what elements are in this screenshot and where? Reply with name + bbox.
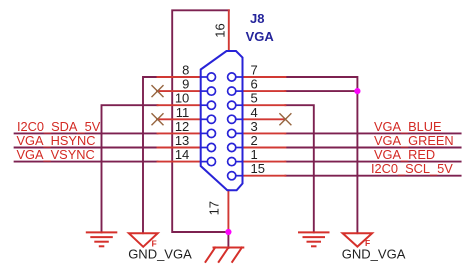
svg-text:VGA_RED: VGA_RED [374, 147, 435, 162]
ground GND_VGA triangle left [129, 233, 158, 247]
pin circles left column [207, 73, 215, 166]
wire VGA_GREEN net [285, 147, 460, 149]
svg-text:7: 7 [251, 63, 258, 78]
svg-text:VGA_VSYNC: VGA_VSYNC [17, 147, 95, 162]
connector J8 body [201, 51, 243, 190]
pin 16 lead [228, 10, 230, 51]
pin 5 lead [243, 104, 286, 106]
svg-text:14: 14 [175, 147, 189, 162]
svg-text:10: 10 [175, 91, 189, 106]
svg-text:8: 8 [182, 63, 189, 78]
ground GND right (earth bars) [299, 232, 329, 246]
wire I2C0_SDA_5V net [15, 132, 158, 134]
ground GND left (earth bars) [87, 232, 117, 246]
wire VGA_VSYNC net [15, 161, 158, 163]
svg-text:I2C0_SCL_5V: I2C0_SCL_5V [371, 161, 453, 176]
junction dot right [354, 88, 360, 94]
svg-text:11: 11 [176, 105, 190, 120]
no-connect X pin 9 [152, 86, 163, 97]
svg-text:GND_VGA: GND_VGA [342, 247, 406, 262]
svg-text:13: 13 [175, 133, 189, 148]
svg-text:J8: J8 [250, 11, 264, 26]
pin 8 lead [158, 76, 201, 78]
svg-text:4: 4 [251, 105, 258, 120]
pin 14 lead [158, 161, 201, 163]
pin 12 lead [158, 132, 201, 134]
wire pin8 to GND_VGA left [143, 77, 158, 233]
ground GND_VGA triangle right [343, 233, 373, 246]
svg-text:17: 17 [207, 201, 222, 215]
no-connect X pin 11 [152, 114, 163, 125]
pin 2 lead [243, 147, 286, 149]
pin 15 lead [243, 175, 286, 177]
svg-text:I2C0_SDA_5V: I2C0_SDA_5V [17, 119, 101, 134]
svg-text:VGA_BLUE: VGA_BLUE [374, 119, 442, 134]
wire pin7 to GND_VGA right [285, 77, 357, 233]
pin 13 lead [158, 147, 201, 149]
pin 17 lead [227, 190, 229, 232]
svg-text:2: 2 [251, 133, 258, 148]
wire VGA_HSYNC net [15, 147, 158, 149]
svg-text:15: 15 [251, 161, 265, 176]
pin stubs left column [201, 77, 208, 162]
wire junction to chassis ground [227, 232, 229, 248]
wire pin10 to GND left [102, 105, 158, 232]
svg-text:VGA: VGA [246, 29, 275, 44]
wire pin5 to GND right [285, 105, 313, 232]
pin 1 lead [243, 161, 286, 163]
svg-text:VGA_GREEN: VGA_GREEN [374, 133, 454, 148]
wire shield L-path from pin16 top, down left side, to bottom junction [172, 10, 229, 232]
wire VGA_RED net [285, 161, 460, 163]
pin 6 lead [243, 90, 286, 92]
pin stubs right column [236, 77, 243, 176]
pin 3 lead [243, 132, 286, 134]
no-connect X pin 4 [280, 114, 291, 125]
pin 4 lead [243, 118, 286, 120]
svg-text:16: 16 [213, 23, 228, 37]
wire pin6 to junction [285, 90, 357, 92]
svg-text:GND_VGA: GND_VGA [128, 247, 192, 262]
pin 9 lead [157, 90, 201, 92]
pin 11 lead [157, 118, 201, 120]
chassis ground center [206, 248, 244, 262]
svg-text:3: 3 [251, 119, 258, 134]
svg-text:12: 12 [175, 119, 189, 134]
wire I2C0_SCL_5V net [285, 175, 460, 177]
junction dot bottom [225, 229, 231, 235]
svg-text:1: 1 [251, 147, 258, 162]
svg-text:6: 6 [251, 77, 258, 92]
pin circles right column [228, 73, 236, 180]
svg-text:VGA_HSYNC: VGA_HSYNC [17, 133, 96, 148]
wire VGA_BLUE net [285, 132, 460, 134]
svg-text:9: 9 [182, 77, 189, 92]
svg-text:5: 5 [251, 91, 258, 106]
pin 10 lead [158, 104, 201, 106]
pin 7 lead [243, 76, 286, 78]
